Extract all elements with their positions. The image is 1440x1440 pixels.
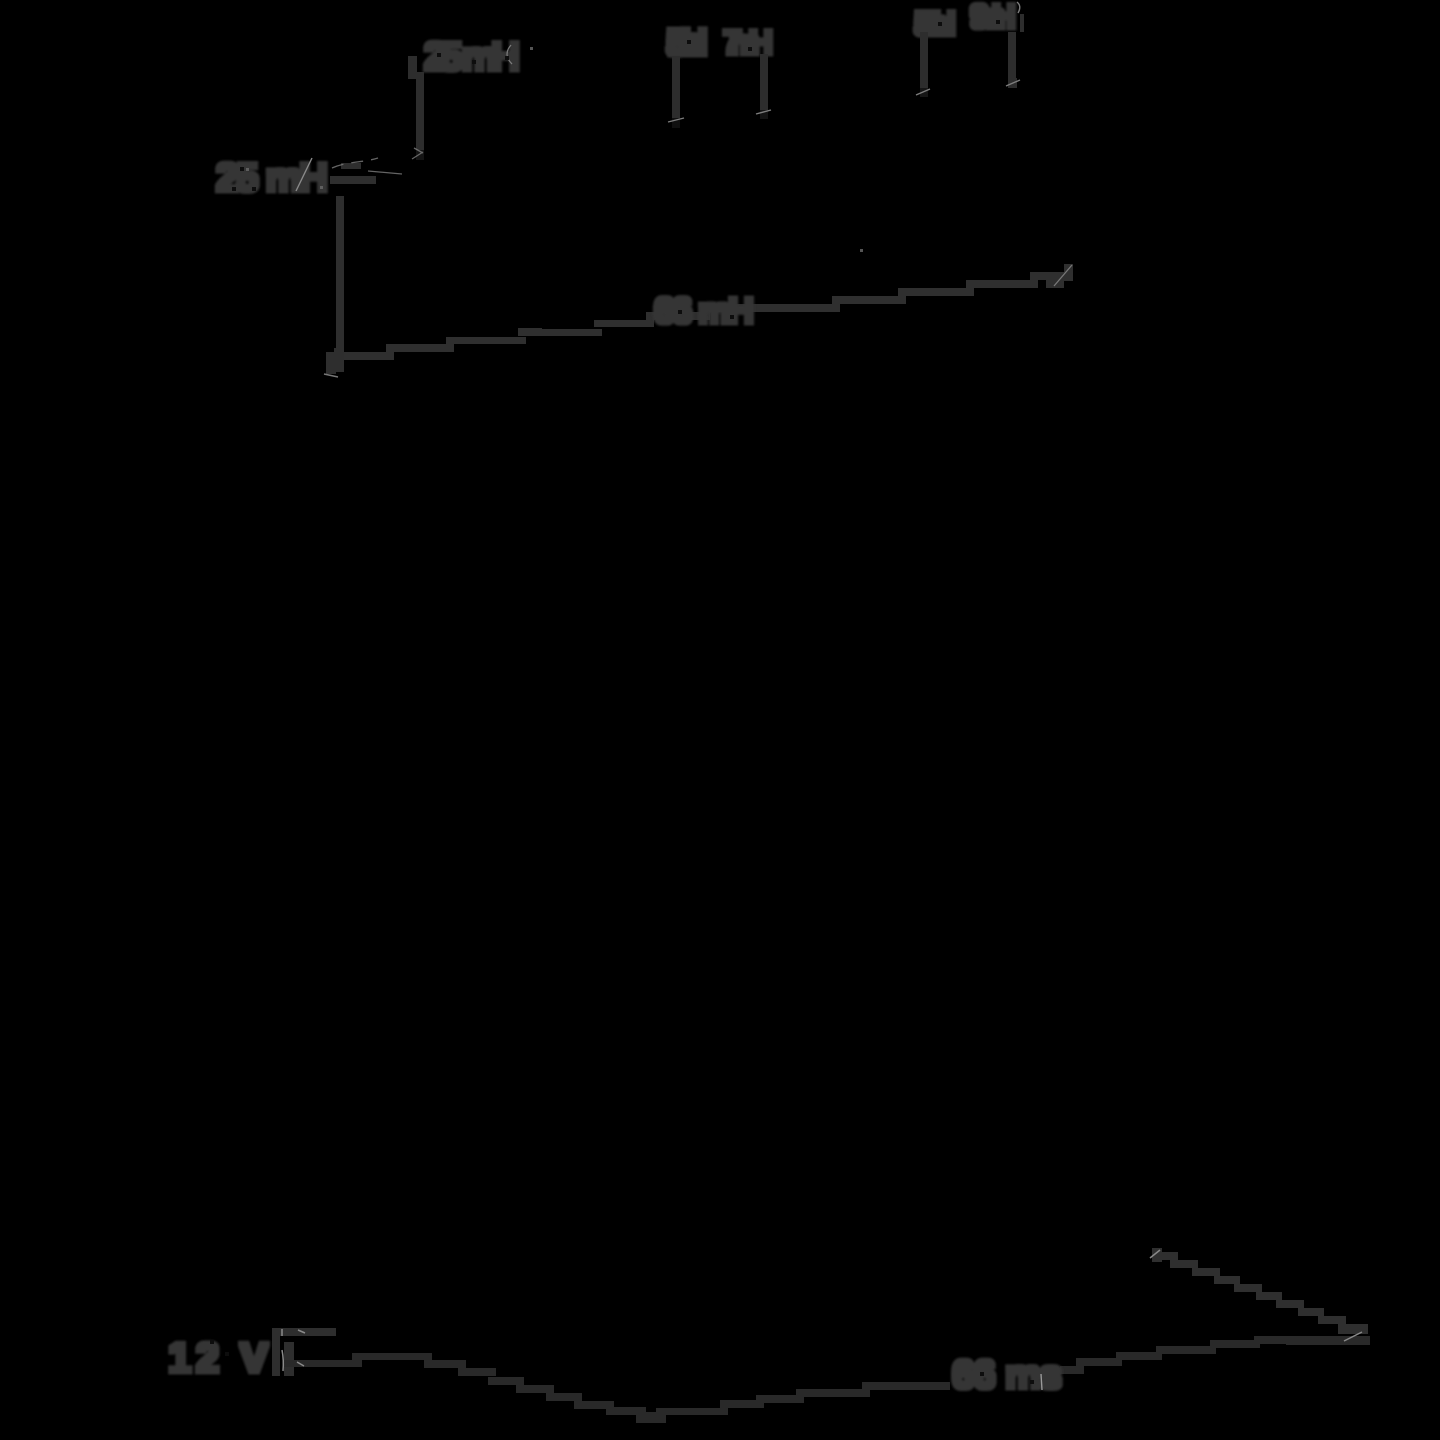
svg-text:66 ms: 66 ms [952,1353,1062,1397]
inductor L4 terminal tip [760,110,768,119]
battery B1 voltage label 12 V [168,1334,268,1381]
inductor L3 value label 5 mH [666,22,708,64]
annotation tick L3 tip [668,118,684,122]
wire vertical drop node A [326,196,344,374]
noise specks dark [210,20,1034,1384]
annotation tick L6 tip [1006,80,1020,86]
svg-text:66 mH: 66 mH [654,290,754,331]
inductor L6 value label 9 mH [970,0,1016,36]
inductor L3 lead wire [672,56,680,120]
annotation tick L4 tip [756,110,771,114]
annotation tick top bus right end [1054,265,1072,286]
svg-text:25 mH: 25 mH [216,156,328,200]
annotation curl above L6 label [1017,2,1020,13]
annotation curl on L2 label [507,45,512,64]
svg-text:9mH: 9mH [970,0,1016,36]
inductor L5 terminal tip [920,88,928,97]
annotation tick node A bottom [324,374,338,377]
annotation tick in 66 ms label [1041,1374,1042,1390]
battery B1 symbol plates [272,1328,336,1376]
time constant label 66 ms [952,1353,1062,1397]
wire hairpin return staircase [1152,1248,1368,1334]
wire main top bus staircase [344,264,1073,360]
inductor L2 lead wire [408,56,424,152]
wire bottom branch battery to dip [284,1353,666,1423]
annotation arrow to node A tip [332,148,423,174]
annotation tick L5 tip [916,89,930,95]
inductor L6 lead wire [1008,14,1024,88]
inductor L2 value label 25 mH [424,35,520,79]
inductor L1 value label [216,156,328,200]
inductor L7 inline value label 66 mH [654,290,754,331]
annotation battery squiggle [282,1329,305,1371]
inductor L5 value label 5 mH [914,5,956,43]
inductor L2 terminal tip [416,150,424,160]
inductor L4 lead wire [760,54,768,112]
wire lead from L1 label [330,163,376,184]
svg-text:12 V: 12 V [168,1334,268,1381]
inductor L5 lead wire [920,32,928,89]
wire bottom branch dip to apex [656,1336,1370,1415]
annotation slash through label [296,158,312,191]
annotation tick hairpin end [1150,1250,1160,1258]
noise specks light [246,47,863,252]
annotation tick apex [1344,1332,1362,1341]
inductor L4 value label 7 mH [723,24,773,62]
inductor L3 terminal tip [672,118,680,128]
